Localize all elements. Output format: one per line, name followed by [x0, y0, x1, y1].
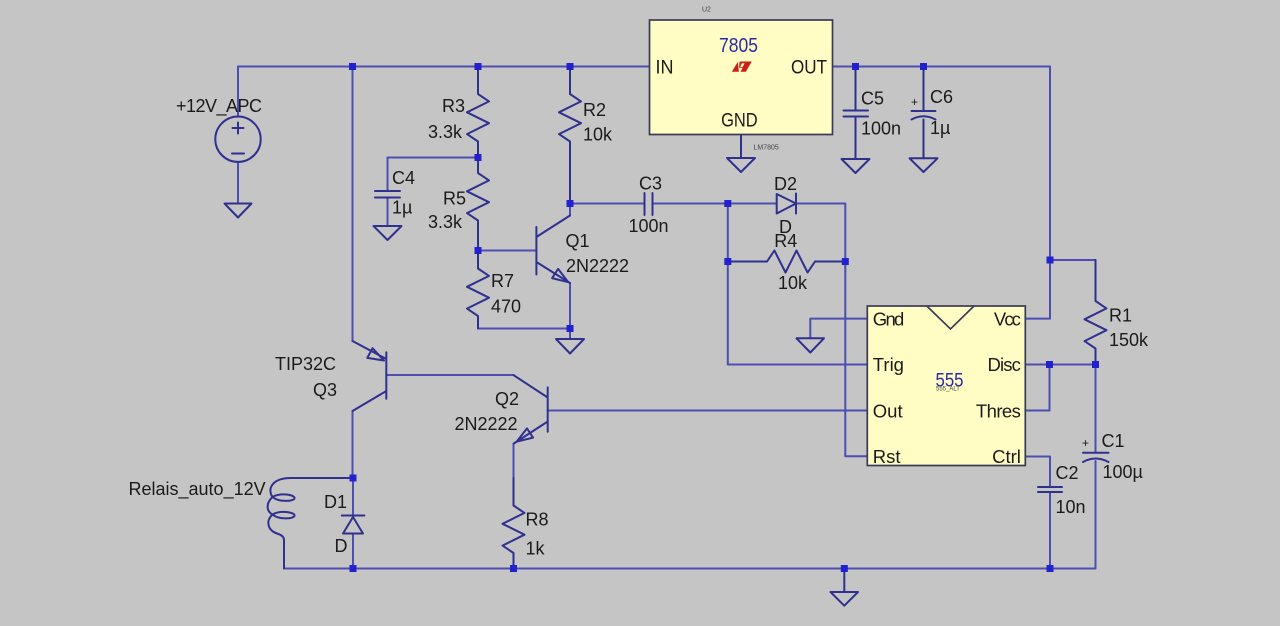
- svg-text:100µ: 100µ: [1103, 462, 1143, 482]
- svg-text:C3: C3: [639, 174, 662, 194]
- wire D1 bottom lead: [352, 534, 354, 569]
- resistor R2 body: [559, 67, 581, 204]
- transistor Q1 arrow: [552, 269, 568, 282]
- svg-text:Out: Out: [873, 400, 903, 421]
- wire Q3 base to Q2 collector: [386, 374, 514, 376]
- svg-text:7805: 7805: [719, 35, 758, 57]
- wire Q1 base: [478, 250, 536, 252]
- voltage source V1 circle: [215, 117, 260, 162]
- inductor L1 relay coil: [268, 478, 353, 569]
- wire Gnd pin of 555: [810, 319, 867, 339]
- capacitor C5: [844, 67, 869, 160]
- wire Out to Q2 base: [548, 410, 868, 412]
- resistor R1 body: [1085, 260, 1107, 365]
- svg-text:Vcc: Vcc: [994, 308, 1021, 329]
- svg-text:Ctrl: Ctrl: [992, 446, 1021, 467]
- transistor Q1 body: [536, 216, 570, 284]
- wire Q1 collector to node: [569, 204, 571, 216]
- wire C3 left: [570, 203, 644, 205]
- wire C1 top: [1095, 365, 1097, 453]
- svg-text:Relais_auto_12V: Relais_auto_12V: [129, 479, 266, 500]
- wire Q3 collector vertical: [352, 411, 354, 478]
- voltage source minus sign: [232, 153, 244, 155]
- svg-text:U2: U2: [702, 7, 711, 14]
- svg-text:R8: R8: [526, 510, 549, 530]
- svg-text:10k: 10k: [778, 273, 808, 293]
- svg-text:D1: D1: [324, 492, 347, 512]
- capacitor C2: [1038, 487, 1062, 492]
- ground (C6): [910, 158, 938, 172]
- wire Trig vertical: [728, 204, 868, 365]
- svg-text:1k: 1k: [526, 539, 546, 559]
- diode D2: [777, 194, 796, 214]
- svg-text:150k: 150k: [1109, 330, 1149, 350]
- resistor R5 body: [467, 158, 489, 251]
- resistor R4 body: [728, 251, 846, 273]
- svg-text:2N2222: 2N2222: [566, 256, 629, 276]
- LT logo: [732, 62, 752, 72]
- svg-text:OUT: OUT: [791, 58, 827, 79]
- wire C4 branch: [388, 158, 479, 191]
- wire Q1 emitter down: [569, 283, 571, 329]
- ground (C4): [374, 226, 402, 240]
- svg-text:1µ: 1µ: [930, 118, 950, 138]
- svg-text:Q2: Q2: [495, 389, 519, 409]
- svg-text:C5: C5: [861, 89, 884, 109]
- svg-text:470: 470: [491, 297, 521, 317]
- node junction squares: [349, 63, 1099, 572]
- wire C2 bottom: [1049, 492, 1051, 569]
- wire right vertical: [1049, 67, 1051, 261]
- wire R7 bottom to Q1 emitter node: [478, 328, 570, 330]
- svg-text:R5: R5: [443, 189, 466, 209]
- svg-text:R7: R7: [491, 271, 514, 291]
- svg-text:R1: R1: [1109, 306, 1132, 326]
- svg-text:D: D: [335, 536, 348, 556]
- wire Q1 ground stem: [569, 329, 571, 340]
- svg-text:10k: 10k: [583, 125, 613, 145]
- resistor R8 body: [503, 478, 525, 569]
- svg-text:Disc: Disc: [988, 354, 1021, 375]
- svg-text:10n: 10n: [1056, 497, 1086, 517]
- transistor Q3 body: [353, 341, 387, 411]
- svg-text:R2: R2: [583, 100, 606, 120]
- capacitor C1 polarized: [1083, 453, 1109, 462]
- ground (7805): [727, 135, 755, 173]
- wire top rail left: [238, 66, 650, 68]
- svg-text:C4: C4: [392, 168, 415, 188]
- wire Q3 emitter vertical: [352, 67, 354, 342]
- svg-text:+: +: [1082, 436, 1089, 450]
- IC U1 555 box: [867, 306, 1025, 467]
- wire bottom rail: [284, 568, 1096, 570]
- ground (C5): [842, 159, 870, 173]
- wire C3 right: [653, 203, 728, 205]
- svg-text:1µ: 1µ: [392, 198, 412, 218]
- transistor Q3 arrow: [367, 348, 384, 360]
- svg-text:Gnd: Gnd: [873, 308, 905, 329]
- svg-text:100n: 100n: [861, 119, 901, 139]
- wire D1 top lead: [352, 478, 354, 516]
- svg-text:Q1: Q1: [566, 231, 590, 251]
- svg-text:Trig: Trig: [873, 354, 904, 375]
- svg-text:R4: R4: [774, 231, 797, 251]
- svg-text:TIP32C: TIP32C: [275, 354, 336, 374]
- svg-text:D2: D2: [774, 174, 797, 194]
- wire Ctrl to C2: [1026, 457, 1051, 488]
- wire D2 right then down to Rst: [796, 204, 867, 457]
- wire Vcc branch: [1026, 260, 1051, 319]
- wire source top: [237, 67, 239, 117]
- IC U2 7805 box: [650, 20, 833, 135]
- svg-text:Thres: Thres: [976, 400, 1021, 421]
- capacitor C6 polarized: [912, 67, 936, 159]
- svg-text:100n: 100n: [629, 216, 669, 236]
- ground (bottom rail): [831, 569, 859, 606]
- svg-text:C2: C2: [1056, 463, 1079, 483]
- svg-text:R3: R3: [442, 96, 465, 116]
- svg-text:3.3k: 3.3k: [428, 122, 463, 142]
- voltage source plus sign: [233, 123, 244, 134]
- svg-text:GND: GND: [721, 111, 758, 132]
- transistor Q2 arrow: [517, 428, 533, 441]
- svg-text:2N2222: 2N2222: [455, 414, 518, 434]
- svg-text:C6: C6: [930, 87, 953, 107]
- svg-text:3.3k: 3.3k: [428, 212, 463, 232]
- svg-text:C1: C1: [1102, 431, 1125, 451]
- wire Disc: [1026, 364, 1096, 366]
- transistor Q2 body: [514, 375, 548, 443]
- wire relay top: [292, 477, 353, 479]
- ground (555 Gnd pin): [797, 338, 825, 352]
- wire R1 top branch: [1050, 259, 1096, 261]
- wire top rail right: [833, 66, 1051, 68]
- svg-text:Rst: Rst: [873, 446, 901, 467]
- svg-text:555_ALT: 555_ALT: [936, 387, 960, 393]
- wire C1 bottom: [1095, 461, 1097, 569]
- ground (voltage source): [225, 204, 252, 218]
- wire Thres: [1026, 365, 1050, 411]
- resistor R3 body: [467, 67, 489, 158]
- ground (Q1 emitter): [556, 339, 584, 354]
- svg-text:IN: IN: [656, 58, 674, 79]
- svg-text:+: +: [911, 95, 918, 109]
- wire source bottom: [237, 162, 239, 204]
- svg-text:LM7805: LM7805: [754, 145, 779, 152]
- wire D2 left lead: [728, 203, 777, 205]
- resistor R7 body: [467, 251, 489, 329]
- wire Q2 emitter to R8: [513, 444, 515, 479]
- svg-text:Q3: Q3: [313, 380, 337, 400]
- capacitor C3: [645, 193, 653, 215]
- capacitor C4: [375, 191, 400, 198]
- wire C4 to ground: [387, 198, 389, 227]
- svg-text:+12V_APC: +12V_APC: [176, 96, 262, 117]
- diode D1: [342, 516, 365, 534]
